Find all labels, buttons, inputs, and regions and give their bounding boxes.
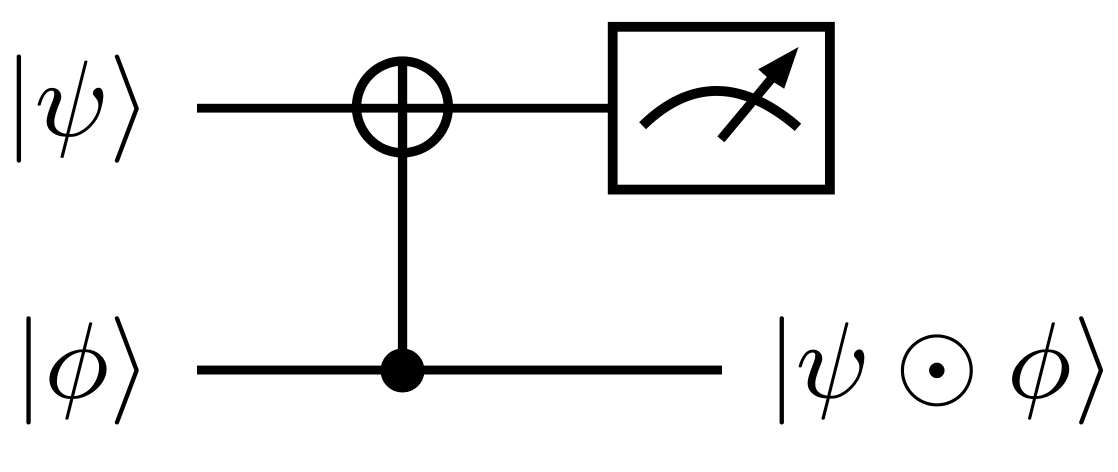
phi glyph of output label [1012, 322, 1069, 419]
wire: CNOT vertical control line [398, 57, 407, 371]
rangle of |phi> input label [115, 316, 139, 424]
measurement gate box M [613, 27, 830, 190]
psi glyph of output label [799, 322, 865, 419]
ket bar of |psi> input label [17, 55, 21, 163]
odot symbol of output label [901, 334, 973, 406]
meter needle shaft [721, 78, 772, 139]
meter arc inside measurement box [643, 91, 798, 127]
ket bar of |phi> input label [26, 316, 30, 424]
CNOT target circle (oplus) on top wire [357, 61, 449, 153]
ket bar of output label [780, 316, 784, 424]
rangle of output label [1079, 316, 1103, 424]
psi glyph of |psi> input label [38, 61, 104, 158]
wire: top qubit line [197, 104, 616, 113]
wire: bottom qubit line [197, 366, 722, 375]
phi glyph of |phi> input label [49, 322, 106, 419]
CNOT control dot on bottom wire [381, 349, 425, 393]
meter needle arrowhead [758, 47, 798, 89]
rangle of |psi> input label [115, 55, 139, 163]
